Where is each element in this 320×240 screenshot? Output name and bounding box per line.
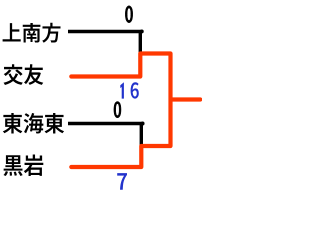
bracket final winner line (red) <box>171 97 201 101</box>
bracket line 東海東 (black, loser) <box>68 124 141 147</box>
score 0 (match 2, 東海東) <box>114 102 121 118</box>
score 0 (match 1, 上南方) <box>125 6 132 23</box>
team name 交友 (kanji 交) <box>4 64 23 85</box>
score 7 (match 2, 黒岩) <box>117 173 127 190</box>
team name 交友 (kanji 友) <box>24 64 43 85</box>
score 16 (match 1, 交友) digit 6 <box>131 82 139 98</box>
team name 東海東 (kanji 東 #2) <box>45 113 65 133</box>
team name 上南方 (kanji 上) <box>3 23 21 41</box>
bracket line winners 交友/黒岩 (red path) <box>71 54 170 168</box>
team name 黒岩 (kanji 岩) <box>24 155 43 176</box>
team name 上南方 (kanji 方) <box>42 23 60 43</box>
team name 上南方 (kanji 南) <box>23 23 41 43</box>
score 16 (match 1, 交友) digit 1 <box>120 82 124 98</box>
team name 東海東 (kanji 海) <box>24 113 44 133</box>
team name 黒岩 (kanji 黒) <box>4 155 23 176</box>
bracket corner nub 東海東 <box>141 122 145 126</box>
bracket corner nub 上南方 <box>140 29 144 33</box>
team name 東海東 (kanji 東) <box>3 113 23 133</box>
bracket line 上南方 (black, loser) <box>68 32 140 55</box>
